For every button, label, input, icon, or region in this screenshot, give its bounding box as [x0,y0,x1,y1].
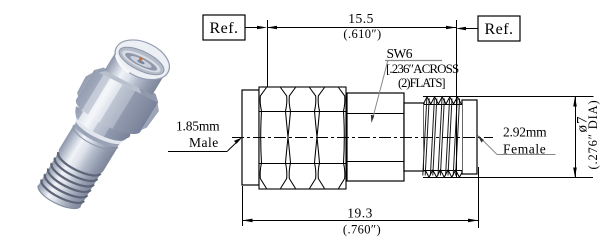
SW6 label [371,46,459,123]
photo threads [34,149,103,214]
threads (drawing) [423,97,462,177]
svg-text:19.3: 19.3 [347,206,373,221]
label 1.85mm Male [168,119,242,152]
svg-text:1.85mm: 1.85mm [176,119,220,134]
extension line left ref [267,20,269,87]
svg-text:Male: Male [189,135,219,150]
photo hex nut [67,63,166,143]
svg-text:(.760″): (.760″) [343,223,381,237]
Ref box right [456,16,520,41]
body SW6 (drawing) [347,93,404,181]
female plain end (drawing) [462,100,477,174]
dimension 15.5 [267,11,457,41]
hex nut (drawing) [259,87,346,189]
svg-text:15.5: 15.5 [348,11,374,26]
photo cylinder [55,124,118,178]
svg-text:Ref.: Ref. [484,21,513,38]
dimension 19.3 [243,167,479,237]
dimension dia7 [423,97,600,178]
svg-text:2.92mm: 2.92mm [503,125,547,140]
step (drawing) [404,103,424,171]
svg-text:(.610″): (.610″) [343,27,381,41]
photo rings [64,106,131,153]
svg-text:(.276″ DIA): (.276″ DIA) [586,99,600,169]
svg-text:Ref.: Ref. [209,20,238,37]
photo male barrel [103,32,177,96]
extension line right ref [456,20,458,177]
label 2.92mm Female [478,125,556,157]
centerline [232,137,493,139]
svg-text:(2)FLATS]: (2)FLATS] [398,76,445,90]
svg-text:[.236″ACROSS: [.236″ACROSS [386,61,459,76]
Ref box left [203,15,267,40]
male barrel (drawing) [242,90,259,185]
svg-text:SW6: SW6 [387,46,413,61]
